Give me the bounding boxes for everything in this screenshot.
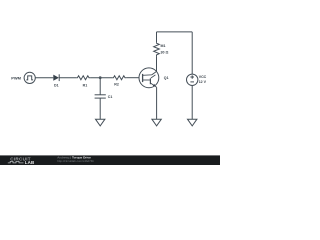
resistor R1 [76, 76, 90, 80]
capacitor C1 [95, 95, 106, 98]
wire [99, 78, 101, 95]
diode D1 [53, 74, 59, 81]
wire [90, 77, 112, 79]
svg-text:http://circuitlab.com/c4bd74b: http://circuitlab.com/c4bd74b [57, 159, 94, 163]
wire [126, 77, 139, 79]
wire [99, 98, 101, 119]
wire [156, 32, 158, 42]
labels [11, 44, 206, 99]
resistor M1 vertical [154, 42, 160, 56]
voltage source VCC [187, 74, 198, 85]
voltage source V1 PWM [24, 72, 35, 83]
resistor R2 [112, 76, 126, 80]
wire [191, 32, 193, 74]
svg-text:LAB: LAB [25, 160, 35, 165]
ground [152, 119, 161, 126]
wire collector [156, 56, 158, 72]
wire top rail [157, 31, 193, 33]
wire [59, 77, 76, 79]
ground [188, 119, 197, 126]
VCC plus minus marks [190, 75, 194, 82]
ground [96, 119, 105, 126]
wire [35, 77, 53, 79]
wire emitter [156, 87, 158, 119]
logo waveform [8, 161, 24, 163]
transistor Q1 [139, 68, 159, 88]
wire [191, 86, 193, 120]
node junction [99, 76, 102, 79]
footer watermark bar [0, 0, 220, 165]
